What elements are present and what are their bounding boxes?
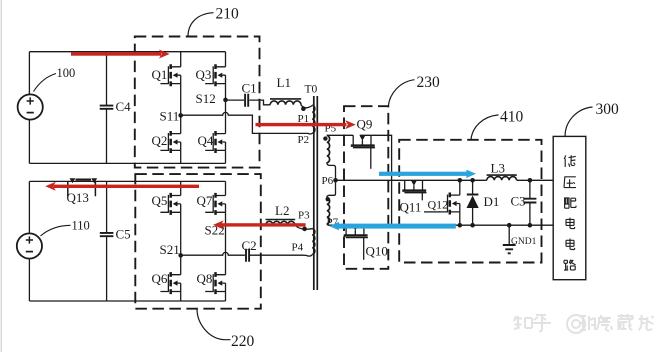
capacitor C1 — [242, 81, 257, 107]
svg-text:410: 410 — [500, 108, 524, 125]
svg-text:300: 300 — [596, 101, 620, 118]
svg-text:C1: C1 — [242, 81, 257, 96]
red arrow 1 (into bridge 210) — [71, 50, 170, 59]
配 — [564, 198, 576, 208]
primary winding P1-P2 — [312, 105, 315, 133]
wire P7 winding bottom to output return — [327, 224, 331, 226]
svg-text:P6: P6 — [322, 175, 334, 187]
svg-text:Q6: Q6 — [152, 271, 168, 286]
transformer core — [314, 96, 318, 290]
知 — [514, 316, 532, 329]
transistor Q11 — [400, 180, 427, 214]
node S12 — [196, 91, 228, 106]
wire P4 end to C2 — [250, 255, 313, 257]
svg-text:C4: C4 — [116, 99, 132, 114]
svg-text:T0: T0 — [305, 84, 318, 96]
svg-text:Q7: Q7 — [197, 193, 213, 208]
red arrow 2 (P1 to Q9) — [256, 120, 356, 129]
red arrow 3 (out of bridge 220 to source 110) — [45, 182, 199, 191]
node S11 — [160, 108, 184, 123]
transistor Q1 — [160, 64, 180, 86]
svg-text:S11: S11 — [160, 108, 180, 123]
transistor Q7 — [205, 193, 225, 215]
wire P7 return rail — [330, 224, 553, 226]
svg-text:C2: C2 — [242, 238, 257, 253]
wire Q9 source to right drop — [360, 135, 392, 225]
wire bottom rail (bottom loop) — [29, 300, 225, 302]
diode D1 — [467, 180, 500, 225]
路 — [564, 260, 576, 270]
龙 — [639, 315, 654, 330]
wire Q7 drain lead — [225, 181, 227, 195]
capacitor C2 — [242, 238, 257, 262]
inductor L3 — [487, 161, 517, 181]
node D1 top dot — [470, 178, 475, 183]
watermark 知乎 @卧虎藏龙 — [514, 314, 654, 333]
svg-text:L2: L2 — [275, 203, 289, 218]
dashed box 410 — [399, 140, 541, 263]
svg-text:Q8: Q8 — [197, 271, 213, 286]
svg-text:220: 220 — [231, 333, 255, 350]
wire Q2 source lead — [180, 150, 182, 163]
wire S12 to C1 — [226, 99, 245, 101]
secondary winding P7 — [327, 198, 330, 224]
svg-text:S21: S21 — [160, 242, 180, 257]
虎 — [597, 315, 612, 331]
label 410 with leader — [471, 108, 524, 140]
blue arrow 2 (return to P7) — [329, 222, 456, 230]
svg-text:110: 110 — [72, 219, 90, 233]
电 — [566, 239, 575, 250]
label 230 with leader — [388, 74, 440, 106]
node dot P3 polarity — [302, 227, 307, 232]
switch Q13 — [67, 178, 98, 205]
block 300 box — [553, 136, 586, 279]
capacitor C3 — [511, 180, 537, 225]
transistor Q2 — [160, 131, 180, 153]
svg-text:P2: P2 — [298, 134, 310, 146]
label 300 with leader — [565, 101, 619, 136]
wire Q8 source lead — [225, 292, 227, 302]
藏 — [618, 314, 634, 330]
svg-text:230: 230 — [417, 74, 441, 91]
wire Q1-Q2 leg — [180, 84, 182, 134]
label 110 with leader — [41, 219, 90, 236]
primary winding P3-P4 — [312, 229, 315, 255]
wire L3 to output — [517, 179, 554, 181]
wire C1 to L1 with jog — [249, 100, 270, 105]
voltage source 100 — [18, 94, 43, 119]
svg-text:P4: P4 — [292, 241, 304, 253]
乎 — [533, 315, 551, 332]
node dot P5 polarity — [323, 136, 327, 140]
wire S21 to C2 with hop over Q7 leg — [181, 252, 245, 255]
wire left rail (bottom loop) — [28, 181, 30, 301]
transistor Q5 — [160, 193, 180, 215]
transistor Q10 — [344, 225, 388, 260]
wire left rail (top loop) — [28, 52, 30, 164]
svg-text:P3: P3 — [298, 209, 310, 221]
wire bottom rail (top loop) — [29, 162, 225, 164]
svg-text:C5: C5 — [116, 227, 131, 242]
node C3 bottom dot — [528, 223, 533, 228]
wire secondary mid elbow to P6 — [327, 162, 336, 198]
node D1 bottom dot — [470, 223, 475, 228]
transistor Q3 — [205, 64, 225, 86]
ground GND1 — [503, 225, 537, 253]
卧 — [580, 316, 595, 330]
blue arrow 1 (P6 to L3) — [379, 170, 476, 178]
capacitor C4 — [100, 52, 131, 164]
wire Q7-Q8 leg — [225, 212, 227, 274]
label 100 with leader — [34, 66, 76, 92]
capacitor C5 — [100, 181, 131, 301]
svg-text:Q13: Q13 — [67, 190, 89, 205]
transistor Q4 — [205, 131, 225, 153]
svg-text:Q2: Q2 — [152, 133, 168, 148]
svg-text:Q5: Q5 — [152, 193, 168, 208]
svg-text:C3: C3 — [511, 194, 526, 209]
svg-text:D1: D1 — [484, 194, 500, 209]
wire top rail (bottom loop) — [29, 180, 225, 182]
wire P5 to Q9 drain — [327, 134, 353, 136]
wire Q1 drain lead — [180, 52, 182, 67]
wire P6 rail to L3 — [336, 179, 487, 181]
svg-text:Q3: Q3 — [196, 67, 212, 82]
wire Q5-Q6 leg — [180, 212, 182, 274]
transistor Q12 — [424, 193, 460, 215]
wire L1 to P1 winding — [301, 105, 312, 108]
svg-text:100: 100 — [57, 66, 76, 80]
inductor L2 — [266, 203, 296, 225]
svg-text:GND1: GND1 — [511, 237, 537, 247]
voltage source 110 — [17, 233, 42, 258]
red arrow 4 (P3 to S22) — [213, 220, 306, 229]
wire S11 to P2 with hop over Q3 leg — [181, 112, 308, 133]
label 210 with leader — [188, 5, 239, 36]
wire Q6 source lead — [180, 292, 182, 302]
transistor Q6 — [160, 272, 180, 294]
label 220 with leader — [197, 309, 255, 350]
wire Q5 drain lead — [180, 181, 182, 195]
wire top rail (top loop) — [29, 51, 225, 53]
dashed box 210 — [135, 37, 260, 168]
低 — [564, 155, 576, 167]
node Q12 source dot — [458, 223, 463, 228]
node GND dot — [507, 223, 512, 228]
svg-text:Q10: Q10 — [366, 244, 388, 259]
svg-text:L3: L3 — [491, 161, 505, 176]
node P6 — [322, 175, 338, 187]
dashed box 220 — [135, 174, 260, 309]
svg-text:Q11: Q11 — [400, 200, 422, 215]
svg-text:Q12: Q12 — [428, 197, 449, 211]
压 — [564, 177, 576, 188]
wire Q4 source lead — [225, 150, 227, 163]
svg-text:Q9: Q9 — [357, 117, 373, 132]
电 — [566, 218, 575, 229]
wire Q12 drain lead — [459, 180, 461, 195]
@ — [567, 315, 585, 333]
node Q12 drain dot — [458, 178, 463, 183]
wire Q3 drain lead — [225, 52, 227, 67]
transistor Q9 — [351, 117, 375, 169]
svg-text:S12: S12 — [196, 91, 216, 106]
node S21 — [160, 242, 184, 257]
dashed box 230 — [344, 106, 388, 269]
node dot P1 polarity — [301, 106, 306, 111]
wire Q12 source lead — [459, 212, 461, 225]
wire Q3-Q4 leg — [225, 84, 227, 134]
scan edge artifact — [0, 0, 2, 352]
svg-text:Q4: Q4 — [198, 133, 214, 148]
svg-text:Q1: Q1 — [152, 67, 168, 82]
block 300 text 低压配电电路 (hand-drawn glyphs) — [564, 155, 576, 270]
svg-text:210: 210 — [216, 5, 240, 22]
secondary winding P5-P6 — [327, 136, 330, 163]
node dot P7 winding polarity — [326, 197, 330, 201]
svg-text:L1: L1 — [277, 75, 291, 90]
wire P2 end — [308, 132, 313, 135]
wire S22 to L2 — [226, 224, 266, 226]
transistor Q8 — [205, 272, 225, 294]
node L3 output dot — [528, 178, 533, 183]
wire L2 to P3 winding — [295, 225, 312, 229]
inductor L1 — [270, 75, 301, 105]
